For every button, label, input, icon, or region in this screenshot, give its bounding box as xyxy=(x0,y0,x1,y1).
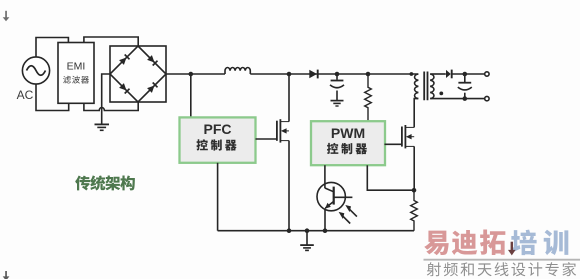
ground symbol bottom xyxy=(306,231,308,245)
wire U3 emitter to ground rail xyxy=(324,208,326,230)
capacitor C1 xyxy=(330,74,344,100)
label 控制器 (PFC) xyxy=(196,139,236,150)
wire Q1 drain to rail xyxy=(288,74,290,122)
bottom ground rail xyxy=(218,230,414,232)
wire EMI top output to bridge xyxy=(84,37,138,46)
label 控制器 (PWM) xyxy=(327,143,367,154)
node: rail to Q1 drain xyxy=(287,72,292,77)
U3 base lead stub xyxy=(334,196,353,198)
watermark 培训 xyxy=(511,230,568,256)
watermark cursor arrow xyxy=(508,242,516,256)
bridge rectifier BR1 xyxy=(110,46,166,102)
svg-text:EMI: EMI xyxy=(67,61,86,73)
capacitor C2 output xyxy=(458,74,472,99)
partial cursor arrow bottom-left xyxy=(3,271,10,279)
wire output bottom rail xyxy=(430,98,485,100)
node ground stem xyxy=(305,228,310,233)
svg-text:PWM: PWM xyxy=(331,125,365,141)
svg-text:AC: AC xyxy=(17,88,34,102)
main DC rail xyxy=(166,73,418,75)
bridge diode D_d (bottom->right) xyxy=(147,86,154,93)
transformer T1 secondary winding xyxy=(430,74,434,99)
label 传统架构 xyxy=(75,175,135,190)
wire PFC gate output xyxy=(256,138,277,140)
wire rail down to PFC controller xyxy=(190,74,192,117)
light arrow 2 into U3 xyxy=(348,208,357,217)
output terminal - xyxy=(485,96,489,100)
wire Q1 source to bottom rail xyxy=(288,141,290,231)
wire PWM pin to optocoupler collector xyxy=(324,165,326,188)
diode D2 output xyxy=(446,70,451,78)
AC source V1 xyxy=(22,57,49,84)
wire AC bottom to EMI filter xyxy=(36,84,69,111)
wire PWM pin to Q2 source node xyxy=(367,165,414,190)
PFC controller box U1 xyxy=(180,117,256,162)
node: rail to C1 xyxy=(335,72,340,77)
node output bottom xyxy=(463,96,468,101)
wire EMI bottom output to bridge (hops over ground line) xyxy=(84,102,138,111)
node U3 emitter on rail xyxy=(323,228,328,233)
transformer T1 core xyxy=(424,72,427,101)
bridge diode D_b (top->right) xyxy=(147,55,154,62)
node: rail to R1 xyxy=(366,72,371,77)
bridge diode D_a (left->top) xyxy=(119,58,126,65)
U3 emitter lead with arrow xyxy=(325,201,333,208)
watermark 射频和天线设计专家 xyxy=(427,262,576,276)
wire bridge left vertex down xyxy=(102,74,110,124)
wire secondary top to D2 xyxy=(430,73,446,75)
mouse cursor arrow top-left xyxy=(3,11,10,21)
U3 collector lead xyxy=(325,188,334,192)
output terminal + xyxy=(485,72,489,76)
PWM controller box U2 xyxy=(311,121,385,165)
watermark 易迪拓 xyxy=(424,230,505,256)
resistor R1 xyxy=(365,74,372,121)
wire PFC bottom to ground rail xyxy=(217,163,219,231)
light arrow 1 into U3 xyxy=(342,215,351,224)
phase dot secondary xyxy=(439,92,443,96)
wire output top rail xyxy=(452,73,485,75)
diode D1 on rail xyxy=(309,70,317,78)
U3 base bar xyxy=(333,187,335,205)
bridge diode D_c (left->bottom) xyxy=(119,83,126,90)
node Q2 source / R2 xyxy=(412,188,417,193)
MOSFET Q2 xyxy=(402,125,414,148)
transformer T1 primary winding xyxy=(415,74,419,99)
wire PWM gate output xyxy=(385,143,402,145)
ground under bridge xyxy=(95,124,110,130)
inductor L1 xyxy=(225,67,250,74)
phase dot primary xyxy=(410,72,414,76)
MOSFET Q1 xyxy=(277,119,289,142)
node: rail to PFC xyxy=(189,72,194,77)
wire AC top to EMI filter xyxy=(36,38,68,58)
EMI filter box U4 xyxy=(58,43,94,104)
svg-text:PFC: PFC xyxy=(204,121,232,137)
optocoupler phototransistor U3 xyxy=(317,182,345,210)
wire Q2 drain to transformer primary xyxy=(414,99,418,128)
resistor R2 xyxy=(411,190,418,231)
node output top xyxy=(463,72,468,77)
wire Q2 source down xyxy=(413,146,415,190)
ground under C1 xyxy=(331,101,344,106)
node Q1 source on rail xyxy=(287,228,292,233)
label 滤波器 xyxy=(63,76,89,84)
watermark underline xyxy=(424,259,580,261)
